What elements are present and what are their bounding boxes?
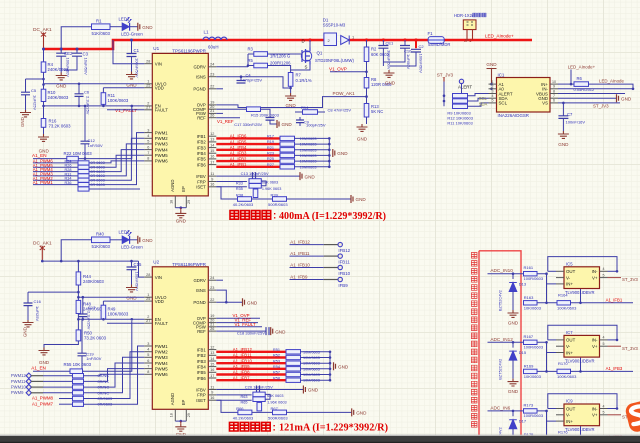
svg-text:5: 5 [603,342,605,346]
ground [351,195,353,203]
wire A1_IFB9 [216,368,286,370]
junction [490,83,493,86]
wire [461,84,463,96]
svg-text:DC_AK1: DC_AK1 [33,27,52,33]
pin 13 IFB2 [208,354,216,356]
svg-text:GND: GND [385,81,396,86]
svg-text:16: 16 [210,183,214,187]
svg-text:1.96K 0603: 1.96K 0603 [262,187,281,191]
wire [546,342,548,371]
wire Q1 drain [309,40,311,48]
svg-text:IC9: IC9 [566,399,573,404]
wire A1_IFB8 [216,373,286,375]
junction [289,87,292,90]
wire VIN [113,40,144,64]
svg-text:R15 200K 0603: R15 200K 0603 [251,113,280,118]
svg-text:IC7: IC7 [566,330,573,335]
svg-text:ISET: ISET [196,398,206,403]
svg-text:14: 14 [210,143,214,147]
junction [180,420,183,423]
svg-text:73.2K 0603: 73.2K 0603 [84,335,107,340]
text vertical chinese note [471,253,477,428]
svg-text:A1_IFB1: A1_IFB1 [230,162,247,167]
svg-text:ADC_IN6: ADC_IN6 [490,405,510,410]
svg-text:2.2uF/25V: 2.2uF/25V [86,96,91,115]
wire [252,198,273,200]
wire [546,274,548,303]
wire stub [31,375,43,377]
svg-text:GND: GND [486,62,497,67]
svg-text:25: 25 [146,297,150,301]
svg-text:PWM5: PWM5 [155,153,169,158]
pin 3 IN+ [556,420,564,422]
ground [20,110,31,117]
svg-text:IN+: IN+ [566,350,573,355]
resistor R49 [102,301,104,305]
ground [285,93,296,100]
pin 6 PWM4 [144,362,152,364]
svg-text:R6: R6 [577,76,583,81]
wire [488,341,524,343]
wire VS [558,102,620,104]
wire [580,358,582,372]
capacitor C7 [562,103,564,116]
svg-text:PGND: PGND [193,300,205,305]
junction [329,368,332,371]
wire OUT [548,270,556,272]
svg-text:C17: C17 [88,305,96,310]
wire [175,207,186,209]
pin 4 SDA [489,97,497,99]
capacitor CE2 [56,53,66,56]
wire IFBV2 [216,389,303,391]
wire POW_AK1 [216,97,366,108]
svg-text:100K/0603: 100K/0603 [557,374,577,379]
svg-text:GND: GND [23,327,28,337]
svg-text:IFB10: IFB10 [338,271,350,276]
pin 2 V- [556,414,564,416]
junction [42,78,45,81]
junction [180,206,183,209]
pin 6 VS [550,102,558,104]
pin 21 PSW [208,326,216,328]
pin ALERT [459,79,463,83]
svg-text:D: D [302,39,305,44]
svg-text:IFB9: IFB9 [338,283,348,288]
junction [545,341,548,344]
svg-text:R22 10M 0603: R22 10M 0603 [64,151,93,156]
svg-text:LED_AInode: LED_AInode [599,79,624,84]
junction [328,143,331,146]
svg-text:R33: R33 [236,181,243,185]
resistor R10 [41,89,46,101]
junction [365,38,368,41]
pin 20 COMP [208,322,216,324]
capacitor C10 [404,40,406,46]
pin 9 FRP [208,181,216,183]
svg-text:GND: GND [508,389,519,394]
svg-text:TLV9001IDBVR: TLV9001IDBVR [565,290,594,295]
svg-text:100K/0603: 100K/0603 [108,311,129,316]
wire VDD [103,87,144,89]
pin 1 UVLO [144,296,152,298]
resistor R15 [216,108,246,110]
wire [328,138,330,166]
junction [102,318,105,321]
pin 1 OUT [556,408,564,410]
wire A1_IFB10 [216,362,286,364]
svg-text:TLV9001IDBVR: TLV9001IDBVR [565,427,594,432]
wire [102,104,104,106]
svg-text:R169: R169 [524,364,534,369]
svg-text:5SMD/MDR: 5SMD/MDR [428,42,450,47]
resistor R37 [253,189,258,198]
junction [579,439,582,442]
svg-text:60uH: 60uH [208,44,219,49]
resistor R4 [43,49,45,62]
svg-text:GND: GND [357,137,368,142]
svg-text:121mA (I=1.229*3992/R): 121mA (I=1.229*3992/R) [279,423,388,434]
svg-text:IFB2: IFB2 [197,353,207,358]
svg-text:DC_AK1: DC_AK1 [33,241,52,247]
svg-text:10K/0603: 10K/0603 [524,374,542,379]
pin 4 PWM2 [144,137,152,139]
pin 9 FRP [208,394,216,396]
wire VBUS [558,93,625,95]
resistor R35 [216,186,247,188]
pin 11 IFBV [208,175,216,177]
junction [443,94,446,97]
svg-text:A1_IFB4: A1_IFB4 [230,145,247,150]
wire Q1 source [291,65,310,71]
junction [76,48,79,51]
resistor R75 [73,385,84,389]
port IFB10 [338,265,342,269]
wire A1_IFB5 [216,143,280,145]
wire [546,411,548,440]
capacitor C12 [84,106,86,141]
resistor R59 [73,374,84,378]
svg-text:AGND: AGND [170,179,175,191]
svg-text:R52: R52 [273,354,280,358]
svg-text:R17: R17 [267,135,274,139]
svg-text:R36: R36 [65,181,72,185]
wire [488,410,524,412]
pin 22 PGND [208,88,216,90]
svg-text:500R/0603: 500R/0603 [268,415,288,420]
wire feedback loop [548,257,617,272]
pin 4 PWM2 [144,351,152,353]
wire [287,411,352,413]
svg-text:A1_IFB10: A1_IFB10 [290,262,310,267]
svg-text:GND: GND [142,25,153,30]
junction [490,88,493,91]
svg-text:IFB2: IFB2 [197,140,207,145]
svg-text:V+: V+ [592,275,598,280]
svg-text:IFB5: IFB5 [197,370,207,375]
svg-text:18: 18 [169,413,173,417]
wire [512,429,514,443]
svg-text:51K/0603: 51K/0603 [92,244,111,249]
wire [33,184,78,186]
svg-text:R173: R173 [524,402,534,407]
pin 3 PWM1 [144,132,152,134]
svg-text:GND: GND [308,388,319,393]
junction [328,160,331,163]
port IFB12 [338,242,342,246]
wire [570,70,572,85]
resistor R7 [288,73,293,87]
svg-text:FAULT: FAULT [155,321,168,326]
wire [110,239,122,241]
svg-text:18: 18 [169,200,173,204]
wire [580,289,582,303]
svg-text:FRP: FRP [197,179,206,184]
svg-text:INA226AIDGSR: INA226AIDGSR [498,113,529,118]
svg-text:VDD: VDD [155,299,164,304]
pin 4 IN- [600,408,608,410]
text output current 121mA [230,422,271,431]
svg-text:300uF/50V: 300uF/50V [387,50,392,70]
wire [301,362,331,364]
svg-text:D17: D17 [519,419,527,424]
op-amp IC7 TLV9001 [564,335,600,357]
svg-text:VDD: VDD [155,86,164,91]
svg-text:6: 6 [147,359,149,363]
wire IN- [558,88,633,90]
svg-text:REF: REF [197,116,206,121]
svg-text:5: 5 [147,353,149,357]
wire [33,166,78,168]
junction [579,370,582,373]
wire A1_IFB12 [216,351,286,353]
svg-text:PWM1: PWM1 [155,344,169,349]
svg-text:PWM1: PWM1 [155,130,169,135]
svg-text:VIN: VIN [155,62,162,67]
svg-text:JP1: JP1 [464,38,472,43]
svg-text:GND: GND [142,238,153,243]
svg-text:27: 27 [146,319,150,323]
ground [558,131,569,138]
svg-text:C17 330nF/25V: C17 330nF/25V [234,122,262,127]
junction [84,105,87,108]
svg-text:POW_AK1: POW_AK1 [333,91,356,96]
svg-text:240K/0603: 240K/0603 [83,279,104,284]
pin 14 IFB3 [208,360,216,362]
pin 2 A0 [489,88,497,90]
svg-text:LED_AInode+: LED_AInode+ [485,33,514,38]
svg-text:8: 8 [553,89,555,93]
pin 28 VIN [144,63,152,65]
svg-text:IFB6: IFB6 [197,376,207,381]
svg-text:C13 100nF/25V: C13 100nF/25V [241,171,269,176]
svg-text:C3: C3 [83,52,89,57]
junction [328,137,331,140]
svg-text:15: 15 [210,149,214,153]
svg-text:HDR-1X2/: HDR-1X2/ [454,13,474,18]
svg-text:11: 11 [210,172,214,176]
svg-text:12: 12 [210,132,214,136]
pin 3 ALERT [489,93,497,95]
wire [261,181,266,186]
junction [77,296,80,299]
svg-text:PWM12: PWM12 [11,373,27,378]
wire [537,439,557,441]
svg-text:C2: C2 [419,44,425,49]
pin 3 PWM1 [144,345,152,347]
svg-text:IN+: IN+ [566,282,573,287]
wire [290,279,324,281]
pin 17 IFB6 [208,377,216,379]
svg-text:10uF/50V: 10uF/50V [84,58,89,76]
resistor R83 [73,396,84,400]
svg-text:IFB5: IFB5 [197,157,207,162]
junction [545,302,548,305]
junction [131,318,134,321]
wire [84,357,145,393]
ground [180,208,182,211]
svg-text:BZT52C4V2: BZT52C4V2 [499,359,503,380]
svg-text:R54: R54 [273,365,280,369]
wire [84,374,145,375]
svg-text:R167: R167 [524,334,534,339]
svg-text:TLV9001IDBVR: TLV9001IDBVR [565,359,594,364]
svg-text:PWM3: PWM3 [155,355,169,360]
pin 2 V- [556,345,564,347]
svg-text:R23: R23 [267,152,274,156]
wire bus2 [42,260,138,262]
svg-text:200R/1206: 200R/1206 [270,61,291,66]
svg-text:SCL: SCL [479,96,488,101]
wire [60,56,62,72]
svg-text:SS5P10-M3: SS5P10-M3 [323,23,346,28]
svg-text:STD20NF06L(UMW): STD20NF06L(UMW) [315,58,354,63]
capacitor C3 [72,53,82,56]
svg-text:R27: R27 [267,163,274,167]
svg-text:0.05R/2512: 0.05R/2512 [574,87,595,92]
pin 11 IFBV [208,389,216,391]
svg-text:U2: U2 [153,260,159,265]
pin 2 V- [556,277,564,279]
wire [265,394,270,399]
junction [42,83,45,86]
svg-text:6: 6 [553,99,555,103]
pin 8 PWM6 [144,373,152,375]
svg-text:8: 8 [147,370,149,374]
wire feedback loop [548,325,617,340]
svg-text:51K/0603: 51K/0603 [92,31,111,36]
wire [488,273,524,275]
svg-text:1.96K 0603: 1.96K 0603 [267,401,286,405]
wire GDRV [216,66,248,68]
capacitor C17a [266,118,275,121]
svg-text:V-: V- [566,413,571,418]
pin 4 IN- [600,270,608,272]
svg-text:27: 27 [146,106,150,110]
pin 23 ISNS [208,76,216,78]
wire [295,111,303,113]
svg-text:ST_3V3: ST_3V3 [622,346,638,351]
wire [43,386,73,388]
svg-text:ISET: ISET [196,185,206,190]
svg-text:A1_IFB12: A1_IFB12 [233,347,253,352]
svg-text:4: 4 [492,94,494,98]
svg-text:PWM6: PWM6 [155,159,169,164]
svg-text:4: 4 [147,134,149,138]
ground [617,94,619,102]
wire stub [324,267,338,269]
svg-text:IFB4: IFB4 [197,151,207,156]
svg-text:26: 26 [210,327,214,331]
junction [77,318,80,321]
resistor R48 [76,300,81,313]
pin 5 V+ [600,277,608,279]
junction [329,373,332,376]
wire [537,411,556,421]
wire [43,72,45,89]
wire [26,78,44,80]
svg-text:9: 9 [211,177,213,181]
pin 14 IFB3 [208,147,216,149]
junction [616,339,619,342]
wire [131,57,133,72]
resistor R64 [257,402,262,411]
resistor R2 [366,40,368,47]
wire [468,94,489,96]
svg-text:1nF/50V: 1nF/50V [88,143,103,148]
svg-text:A1_IFB2: A1_IFB2 [230,156,247,161]
pin 19 OVP [208,104,216,106]
ground [38,134,49,141]
wire feedback loop [548,394,617,409]
pin 26 REF [208,330,216,332]
pin 3 IN+ [556,283,564,285]
svg-text::: : [273,211,276,222]
svg-text:26: 26 [210,114,214,118]
junction [329,362,332,365]
junction [42,48,45,51]
svg-text:1nF/50V: 1nF/50V [86,356,101,361]
junction [365,95,368,98]
svg-text:TPS61196PWPR: TPS61196PWPR [172,262,206,267]
IC U2 TPS61196PWPR [152,267,208,410]
svg-text:R65: R65 [241,401,248,405]
svg-text:2: 2 [492,85,494,89]
wire EN2 row [78,318,144,320]
wire IN+ [558,83,574,85]
svg-text:R5: R5 [248,58,254,63]
junction [328,149,331,152]
wire [301,379,331,381]
pin 1 OUT [556,339,564,341]
wire [571,302,634,304]
wire [537,370,557,372]
wire stub [324,279,338,281]
wire [25,95,27,110]
wire A1_IFB3 [216,154,280,156]
op-amp IC5 TLV9001 [564,267,600,289]
svg-text:ST_JV3: ST_JV3 [437,73,454,78]
svg-text:GND: GND [356,197,367,202]
IC U1 TPS61196PWPR [152,53,208,196]
svg-text:9: 9 [553,85,555,89]
svg-text:73.2K 0603: 73.2K 0603 [49,124,72,129]
pin 21 PSW [208,112,216,114]
svg-text:R7: R7 [296,73,302,78]
capacitor C16 [27,292,29,303]
svg-text:1uF/50V: 1uF/50V [406,54,411,69]
junction [78,83,81,86]
